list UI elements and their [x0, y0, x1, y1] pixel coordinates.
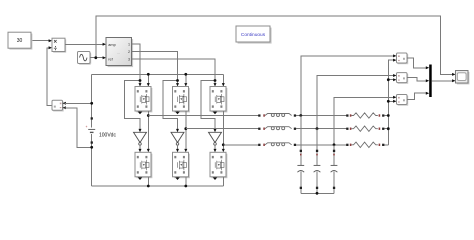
wire: out3 tee detour to NOT gate 3 [201, 79, 217, 132]
wire: V3 output to mux in3 [407, 92, 429, 100]
wire: neutral vertical bus [387, 59, 397, 145]
wire: PWM out1 to leg A top gate [132, 44, 142, 87]
inductor LB [258, 127, 296, 130]
wire: phase C tap to V3 plus [333, 96, 397, 146]
svg-text:2: 2 [128, 50, 130, 54]
wire: phase C line [223, 144, 259, 146]
MOSFET switch S1 (leg A top) [135, 87, 152, 113]
wire: leg A midpoint vertical [147, 111, 150, 152]
DC voltage measurement block (flipped) [52, 100, 64, 111]
capacitor CC branch [331, 145, 338, 194]
wire: DC+ bus [92, 73, 225, 87]
wire: phase A mid [296, 115, 347, 117]
constant block 30 [8, 32, 32, 49]
wire: m stub S4 [138, 177, 143, 180]
wire: PWM out3 to leg C top gate [132, 59, 217, 87]
wire: m stub S1 [138, 111, 143, 114]
wire: voltage measurement output up to divide input 2 [47, 46, 52, 105]
wire: leg C midpoint vertical [222, 111, 225, 152]
svg-text:Continuous: Continuous [241, 32, 266, 38]
wire: phase C to neutral [385, 144, 389, 146]
wire: m stub S2 [175, 111, 180, 114]
resistor RC [346, 142, 384, 147]
wire: V1 output to mux in1 [407, 58, 429, 69]
DC voltage source 100Vdc [86, 74, 96, 186]
wire: phase B to neutral [385, 128, 389, 130]
wire: m stub S3 [213, 111, 218, 114]
wire: sine output to PWM ref input, tee up to long top feedback line to scope [90, 16, 456, 76]
wire: leg B midpoint vertical [184, 111, 187, 152]
wire: phase A to neutral [385, 115, 389, 117]
wire: phase A tap to V1 plus [299, 54, 396, 117]
NOT gate 3 [209, 132, 222, 152]
MOSFET switch S4 (leg A bottom) [135, 152, 152, 178]
wire: phase B line [186, 128, 259, 130]
capacitor CA branch [297, 116, 304, 194]
inductor LA [258, 114, 296, 117]
powergui block Continuous [236, 26, 272, 44]
wire: m stub S5 [175, 177, 180, 180]
svg-text:30: 30 [17, 38, 23, 44]
wire: mux output to scope [432, 79, 456, 82]
resistor RA [346, 113, 384, 118]
wire: DC- bottom bus [92, 177, 224, 188]
wire: neutral to V2 minus [387, 78, 397, 81]
wire: m stub S6 [213, 177, 218, 180]
svg-text:3: 3 [128, 58, 130, 62]
wire: vmeter + input from DC bus [63, 102, 94, 105]
capacitor CB branch [314, 129, 321, 194]
MOSFET switch S6 (leg C bottom) [210, 152, 227, 178]
mux [429, 65, 432, 98]
MOSFET switch S5 (leg B bottom) [173, 152, 190, 178]
svg-text:...: ... [117, 50, 120, 55]
svg-text:+: + [86, 125, 88, 129]
voltage measurement V3 [397, 95, 409, 106]
inductor LC [258, 143, 296, 146]
sine wave source block [78, 52, 92, 65]
wire: phase B mid [296, 128, 347, 130]
divide block [52, 38, 66, 53]
NOT gate 2 [171, 132, 184, 152]
wire: V2 output to mux in2 [407, 78, 429, 83]
svg-text:amp: amp [108, 43, 115, 47]
resistor RB [346, 126, 384, 131]
wire: neutral to V3 minus [387, 100, 397, 103]
PWM generator subsystem U1 [106, 38, 133, 68]
wire: phase A line [148, 115, 259, 117]
wire: out1 tee detour to NOT gate 1 [124, 79, 141, 132]
wire: vmeter - input from DC- rail [63, 106, 94, 148]
voltage measurement V1 [397, 53, 409, 64]
wire: phase B tap to V2 plus [316, 74, 397, 130]
MOSFET switch S2 (leg B top) [173, 87, 190, 113]
svg-text:1: 1 [128, 43, 130, 47]
wire: out2 tee detour to NOT gate 2 [163, 79, 179, 132]
svg-text:100Vdc: 100Vdc [99, 132, 116, 138]
wire: phase C mid [296, 144, 347, 146]
wire: divide output to PWM amp input [65, 43, 106, 46]
voltage measurement V2 [397, 73, 409, 84]
wire: capacitor common bus [301, 192, 334, 195]
MOSFET switch S3 (leg C top) [210, 87, 227, 113]
wire: constant 30 to divide input 1 [31, 39, 52, 42]
NOT gate 1 [134, 132, 147, 152]
wire: PWM out2 to leg B top gate [132, 52, 180, 87]
scope [456, 71, 470, 85]
